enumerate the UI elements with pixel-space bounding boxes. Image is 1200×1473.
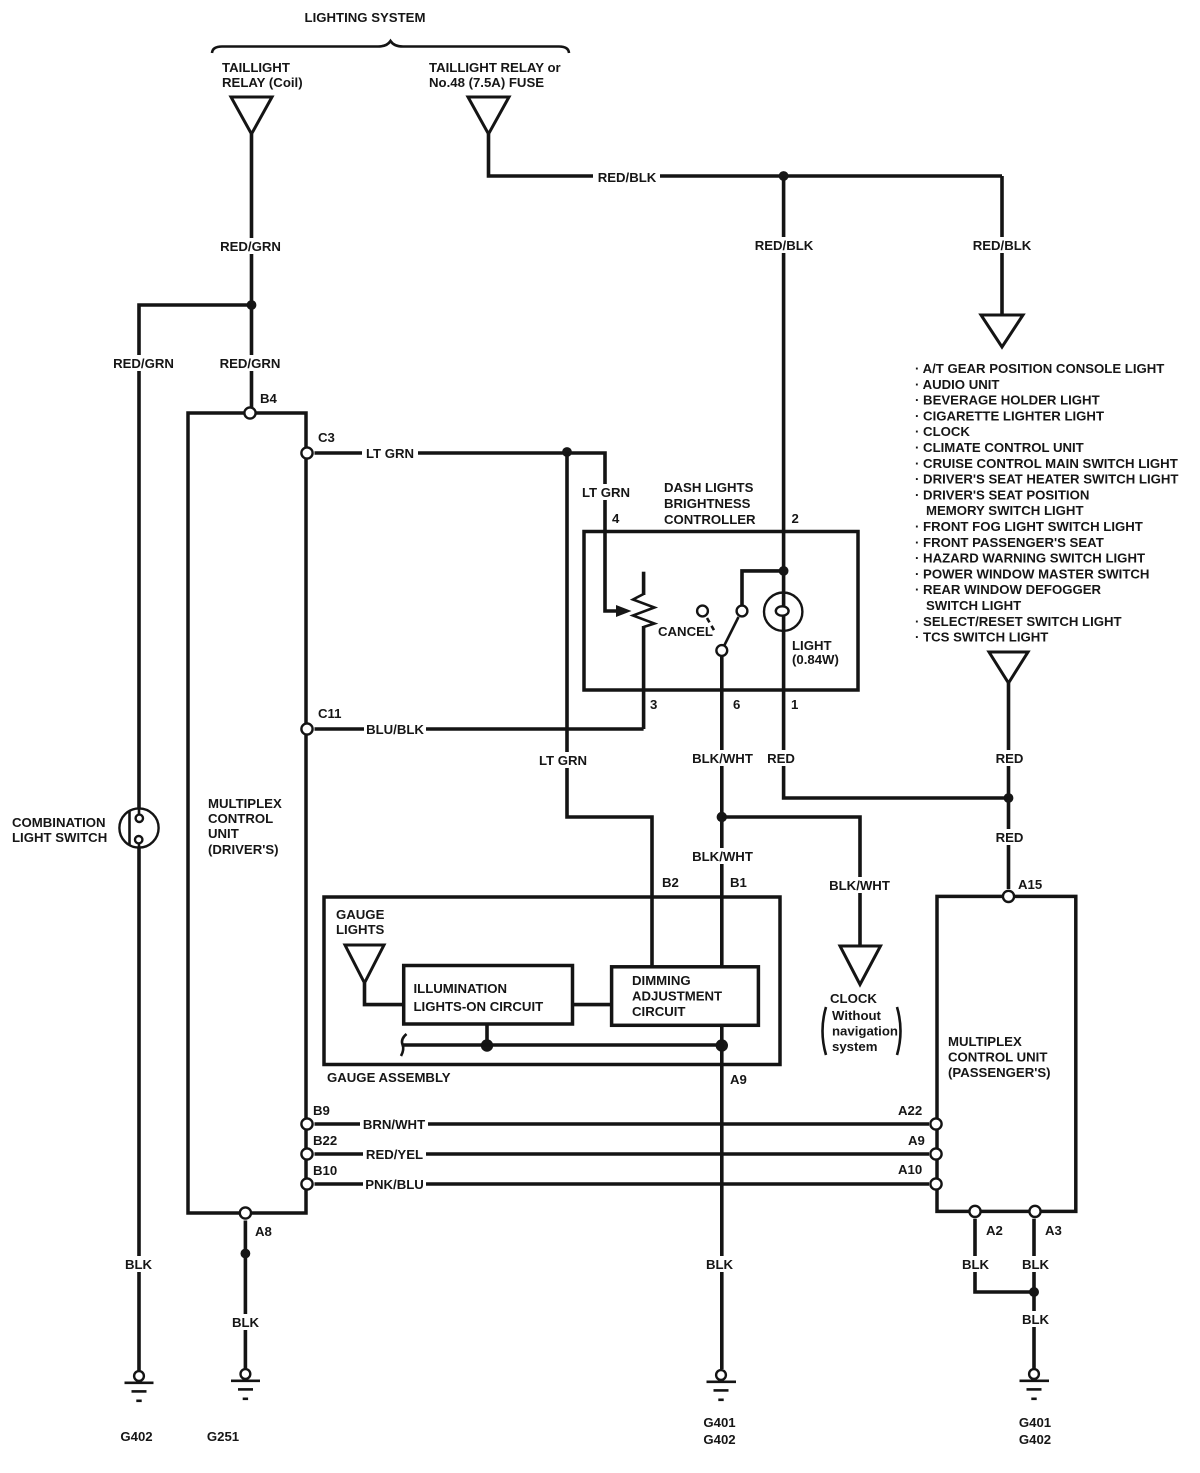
pin label A9 (gauge out) (730, 1072, 747, 1087)
svg-text:6: 6 (733, 697, 740, 712)
connector C11 (301, 723, 312, 734)
wire between illumination and dimming circuits (573, 1003, 612, 1007)
connector B10 (301, 1178, 312, 1189)
label BLU/BLK (364, 721, 426, 737)
ground bus wire (402, 1043, 722, 1047)
switch lever (724, 617, 739, 646)
svg-text:BLK/WHT: BLK/WHT (692, 849, 753, 864)
junction RED/BLK tee (779, 171, 789, 181)
svg-text:B10: B10 (313, 1163, 337, 1178)
junction LT GRN tee (562, 447, 572, 457)
svg-text:RED/GRN: RED/GRN (220, 356, 281, 371)
svg-text:BLK/WHT: BLK/WHT (829, 878, 890, 893)
svg-text:ILLUMINATION: ILLUMINATION (414, 981, 508, 996)
svg-text:C3: C3 (318, 430, 335, 445)
connector B22 (301, 1148, 312, 1159)
svg-text:BLK: BLK (962, 1257, 990, 1272)
svg-text:G401: G401 (703, 1415, 735, 1430)
svg-text:LIGHT: LIGHT (792, 638, 832, 653)
connector A2 (969, 1206, 980, 1217)
svg-text:BLK: BLK (232, 1315, 260, 1330)
svg-text:B9: B9 (313, 1103, 330, 1118)
label TAILLIGHT RELAY (Coil) (222, 60, 303, 90)
svg-text:RED: RED (996, 830, 1024, 845)
svg-text:GAUGE ASSEMBLY: GAUGE ASSEMBLY (327, 1070, 451, 1085)
wire RED/BLK from fuse triangle right (489, 134, 1003, 176)
svg-text:· AUDIO UNIT: · AUDIO UNIT (915, 377, 1000, 392)
dimming adjustment circuit box (612, 967, 759, 1026)
svg-text:BLK: BLK (1022, 1312, 1050, 1327)
ground G251 (231, 1369, 260, 1399)
label BRN/WHT (360, 1116, 428, 1132)
svg-text:BLK: BLK (706, 1257, 734, 1272)
wire switch to pin2 node (742, 571, 784, 605)
svg-text:BRIGHTNESS: BRIGHTNESS (664, 496, 751, 511)
label GAUGE LIGHTS (336, 907, 385, 937)
pin label 4 (612, 511, 620, 526)
svg-text:LIGHT SWITCH: LIGHT SWITCH (12, 830, 107, 845)
svg-text:BLK: BLK (125, 1257, 153, 1272)
svg-text:CLOCK: CLOCK (830, 991, 877, 1006)
wire BLK from A8 to G251 (244, 1221, 248, 1370)
cancel contact (697, 606, 708, 617)
label A8 (255, 1224, 272, 1239)
svg-text:4: 4 (612, 511, 620, 526)
label BLK (A8 wire) (229, 1314, 262, 1330)
ground G402 (left) (125, 1371, 154, 1401)
svg-text:RED: RED (996, 751, 1024, 766)
switch fixed contact (737, 606, 748, 617)
label B9 (313, 1103, 330, 1118)
junction dimming bus (716, 1039, 728, 1051)
wire BLK/WHT branch to clock (722, 817, 860, 946)
junction A2/A3 ground tee (1029, 1287, 1039, 1297)
svg-text:Without: Without (832, 1008, 882, 1023)
label RED/BLK (to circuit list) (969, 237, 1035, 253)
svg-text:DASH LIGHTS: DASH LIGHTS (664, 480, 754, 495)
label RED/GRN (to B4) (218, 355, 282, 371)
label B22 (313, 1133, 337, 1148)
wire illumination circuit to ground bus (485, 1024, 489, 1045)
svg-text:· HAZARD WARNING SWITCH LIGHT: · HAZARD WARNING SWITCH LIGHT (915, 551, 1145, 566)
label DIMMING ADJUSTMENT CIRCUIT (632, 973, 722, 1019)
svg-text:(DRIVER'S): (DRIVER'S) (208, 842, 279, 857)
bus continuation mark (401, 1034, 407, 1056)
label BLK (A9 wire) (703, 1256, 736, 1272)
label ILLUMINATION LIGHTS-ON CIRCUIT (414, 981, 544, 1014)
ground G401 G402 (right) (1020, 1369, 1050, 1399)
label MULTIPLEX CONTROL UNIT (DRIVER'S) (208, 796, 282, 857)
svg-text:PNK/BLU: PNK/BLU (365, 1177, 424, 1192)
label RED/BLK (horizontal feed) (593, 168, 660, 185)
pin label B1 (730, 875, 747, 890)
svg-text:G402: G402 (1019, 1432, 1051, 1447)
svg-text:· POWER WINDOW MASTER SWITCH: · POWER WINDOW MASTER SWITCH (915, 566, 1149, 581)
label DASH LIGHTS BRIGHTNESS CONTROLLER (664, 480, 756, 527)
ground G401 G402 (center) (707, 1370, 737, 1400)
svg-text:LIGHTS: LIGHTS (336, 922, 385, 937)
svg-text:CONTROL UNIT: CONTROL UNIT (948, 1050, 1047, 1065)
svg-text:BLU/BLK: BLU/BLK (366, 722, 424, 737)
label C3 (318, 430, 335, 445)
junction BLK/WHT tee (717, 812, 727, 822)
potentiometer (dimmer resistor) (633, 572, 654, 729)
svg-text:RED/GRN: RED/GRN (220, 239, 281, 254)
svg-text:(0.84W): (0.84W) (792, 652, 839, 667)
connector C3 (301, 447, 312, 458)
label CANCEL (658, 624, 713, 639)
svg-text:· TCS SWITCH LIGHT: · TCS SWITCH LIGHT (915, 630, 1048, 645)
svg-text:RED/BLK: RED/BLK (973, 238, 1032, 253)
svg-text:· BEVERAGE HOLDER LIGHT: · BEVERAGE HOLDER LIGHT (915, 393, 1100, 408)
svg-text:RED: RED (767, 751, 795, 766)
label RED (pin 1) (765, 750, 797, 766)
connector A10 (930, 1178, 941, 1189)
label G401 G402 (center) (703, 1415, 735, 1447)
label A10 (898, 1162, 922, 1177)
connector A15 (1003, 891, 1014, 902)
label C11 (318, 706, 341, 721)
svg-text:B4: B4 (260, 391, 278, 406)
svg-text:MULTIPLEX: MULTIPLEX (948, 1034, 1022, 1049)
connector B4 (244, 407, 255, 418)
wire LT GRN from C3 to controller pin 4 (315, 453, 619, 611)
label RED (above junction) (994, 750, 1025, 766)
label A2 (986, 1223, 1003, 1238)
svg-text:A3: A3 (1045, 1223, 1062, 1238)
svg-text:LIGHTING SYSTEM: LIGHTING SYSTEM (305, 10, 426, 25)
label BLK/WHT (above junction) (690, 750, 755, 766)
svg-text:MULTIPLEX: MULTIPLEX (208, 796, 282, 811)
label LT GRN (pin 4) (578, 484, 634, 500)
dashed cancel link (707, 618, 715, 632)
svg-text:· FRONT FOG LIGHT SWITCH LIGHT: · FRONT FOG LIGHT SWITCH LIGHT (915, 519, 1143, 534)
svg-text:BLK/WHT: BLK/WHT (692, 751, 753, 766)
label BLK/WHT (below junction) (690, 848, 755, 864)
svg-text:GAUGE: GAUGE (336, 907, 385, 922)
wire RED down to A15 (1007, 683, 1011, 889)
svg-text:No.48 (7.5A) FUSE: No.48 (7.5A) FUSE (429, 75, 544, 90)
svg-text:LT GRN: LT GRN (366, 446, 414, 461)
svg-text:RED/GRN: RED/GRN (113, 356, 174, 371)
junction illumination bus (481, 1039, 493, 1051)
svg-text:A9: A9 (908, 1133, 925, 1148)
label LT GRN (vertical) (535, 752, 591, 768)
label A22 (898, 1103, 922, 1118)
label BLK (below junction) (1019, 1311, 1052, 1327)
pin label 2 (792, 511, 799, 526)
connector A8 (240, 1207, 251, 1218)
svg-text:G401: G401 (1019, 1415, 1051, 1430)
circuit list (915, 361, 1178, 645)
connector triangle: taillight relay / fuse (468, 97, 509, 134)
wire BLK from A2 (975, 1219, 1034, 1292)
svg-text:BLK: BLK (1022, 1257, 1050, 1272)
label RED (below junction) (994, 829, 1025, 845)
svg-text:system: system (832, 1039, 877, 1054)
connector triangle: to listed circuits (981, 315, 1023, 347)
svg-text:· CLOCK: · CLOCK (915, 424, 970, 439)
svg-text:UNIT: UNIT (208, 826, 239, 841)
label BLK (left ground wire) (122, 1256, 155, 1272)
wire A9 through gauge box down (720, 1025, 724, 1369)
junction splice on A8 ground wire (241, 1249, 251, 1259)
svg-text:· CLIMATE CONTROL UNIT: · CLIMATE CONTROL UNIT (915, 440, 1084, 455)
svg-text:G402: G402 (703, 1432, 735, 1447)
svg-text:TAILLIGHT RELAY or: TAILLIGHT RELAY or (429, 60, 561, 75)
label A15 (1018, 877, 1042, 892)
svg-text:· FRONT PASSENGER'S SEAT: · FRONT PASSENGER'S SEAT (915, 535, 1104, 550)
label PNK/BLU (363, 1176, 426, 1192)
label BLK/WHT (clock branch) (827, 877, 892, 893)
wire RED/BLK down to controller pin 2 (782, 176, 786, 592)
lamp LIGHT 0.84W (764, 593, 802, 632)
svg-text:B2: B2 (662, 875, 679, 890)
svg-text:· CIGARETTE LIGHTER LIGHT: · CIGARETTE LIGHTER LIGHT (915, 408, 1104, 423)
header LIGHTING SYSTEM (305, 10, 426, 25)
label GAUGE ASSEMBLY (327, 1070, 451, 1085)
wire BLU/BLK from C11 to controller pin 3 (315, 727, 644, 731)
svg-text:C11: C11 (318, 706, 341, 721)
label COMBINATION LIGHT SWITCH (12, 815, 107, 845)
label B10 (313, 1163, 337, 1178)
label LIGHT (0.84W) (792, 638, 839, 667)
combination light switch (119, 807, 158, 849)
pin label B2 (662, 875, 679, 890)
svg-text:B1: B1 (730, 875, 747, 890)
label RED/GRN (upper middle) (219, 238, 282, 254)
wire RED/BLK down to circuits arrow (1000, 176, 1004, 315)
label RED/GRN (left branch) (111, 355, 175, 371)
svg-text:· A/T GEAR POSITION CONSOLE LI: · A/T GEAR POSITION CONSOLE LIGHT (915, 361, 1164, 376)
wire PNK/BLU B10 to A10 (315, 1182, 930, 1186)
illumination lights-on circuit box (404, 966, 573, 1025)
connector triangle: taillight relay coil (231, 97, 272, 134)
svg-text:CONTROLLER: CONTROLLER (664, 512, 756, 527)
label RED/BLK (to controller) (751, 237, 817, 253)
svg-text:A2: A2 (986, 1223, 1003, 1238)
wire RED pin1 down and right to junction (784, 631, 1009, 798)
label CLOCK (Without navigation system) (823, 991, 901, 1055)
pin label 1 (791, 697, 798, 712)
svg-text:MEMORY SWITCH LIGHT: MEMORY SWITCH LIGHT (926, 503, 1084, 518)
pin label 6 (733, 697, 740, 712)
svg-text:B22: B22 (313, 1133, 337, 1148)
svg-text:BRN/WHT: BRN/WHT (363, 1117, 425, 1132)
pin label 3 (650, 697, 657, 712)
svg-text:CANCEL: CANCEL (658, 624, 713, 639)
switch moving contact (716, 645, 727, 656)
svg-text:TAILLIGHT: TAILLIGHT (222, 60, 290, 75)
connector B9 (301, 1118, 312, 1129)
label LT GRN (at C3) (362, 445, 418, 461)
wire BRN/WHT B9 to A22 (315, 1122, 930, 1126)
label A3 (1045, 1223, 1062, 1238)
svg-text:3: 3 (650, 697, 657, 712)
svg-text:· DRIVER'S SEAT HEATER SWITCH: · DRIVER'S SEAT HEATER SWITCH LIGHT (915, 472, 1178, 487)
svg-text:A15: A15 (1018, 877, 1042, 892)
connector triangle: gauge lights (345, 945, 384, 983)
gauge assembly box (324, 897, 780, 1065)
wire BLK from A3 to ground (1032, 1219, 1036, 1369)
junction pin2 node (779, 566, 789, 576)
label A9 (908, 1133, 925, 1148)
svg-text:LT GRN: LT GRN (539, 753, 587, 768)
connector A22 (930, 1118, 941, 1129)
svg-text:LT GRN: LT GRN (582, 485, 630, 500)
connector triangle: from lighting circuits (RED) (989, 652, 1028, 683)
svg-text:1: 1 (791, 697, 798, 712)
label G251 (207, 1429, 239, 1444)
brace over lighting system (212, 41, 569, 53)
multiplex control unit passenger's box (937, 896, 1076, 1211)
svg-text:A10: A10 (898, 1162, 922, 1177)
svg-text:RELAY (Coil): RELAY (Coil) (222, 75, 303, 90)
svg-text:· SELECT/RESET SWITCH LIGHT: · SELECT/RESET SWITCH LIGHT (915, 614, 1122, 629)
wire BLK/WHT pin6 down (720, 656, 724, 967)
wire LT GRN down to B2 (567, 452, 652, 967)
label B4 (260, 391, 278, 406)
svg-text:· CRUISE CONTROL MAIN SWITCH L: · CRUISE CONTROL MAIN SWITCH LIGHT (915, 456, 1178, 471)
wiper arrow pin 4 (616, 605, 632, 617)
svg-text:· REAR WINDOW DEFOGGER: · REAR WINDOW DEFOGGER (915, 582, 1102, 597)
multiplex control unit driver's box (188, 413, 306, 1213)
label G402 (120, 1429, 152, 1444)
svg-text:A22: A22 (898, 1103, 922, 1118)
junction RED/GRN tee (247, 300, 257, 310)
svg-text:A9: A9 (730, 1072, 747, 1087)
svg-text:COMBINATION: COMBINATION (12, 815, 106, 830)
svg-text:2: 2 (792, 511, 799, 526)
junction RED tee (1004, 793, 1014, 803)
wire gauge lights to illumination circuit (365, 983, 404, 1005)
wire RED/YEL B22 to A9 (315, 1152, 930, 1156)
svg-text:navigation: navigation (832, 1024, 898, 1039)
svg-text:G402: G402 (120, 1429, 152, 1444)
svg-text:CIRCUIT: CIRCUIT (632, 1004, 685, 1019)
svg-text:RED/YEL: RED/YEL (366, 1147, 423, 1162)
label MULTIPLEX CONTROL UNIT (PASSENGER'S) (948, 1034, 1051, 1080)
svg-text:· DRIVER'S SEAT POSITION: · DRIVER'S SEAT POSITION (915, 487, 1089, 502)
wire RED/GRN from taillight relay down (250, 134, 254, 413)
svg-text:RED/BLK: RED/BLK (598, 170, 657, 185)
label BLK (A2) (959, 1256, 992, 1272)
svg-text:G251: G251 (207, 1429, 239, 1444)
svg-text:LIGHTS-ON CIRCUIT: LIGHTS-ON CIRCUIT (414, 999, 544, 1014)
label BLK (A3) (1019, 1256, 1052, 1272)
svg-text:A8: A8 (255, 1224, 272, 1239)
connector triangle: clock (840, 946, 881, 985)
label G401 G402 (right) (1019, 1415, 1051, 1447)
svg-text:ADJUSTMENT: ADJUSTMENT (632, 989, 722, 1004)
svg-text:CONTROL: CONTROL (208, 811, 273, 826)
svg-text:RED/BLK: RED/BLK (755, 238, 814, 253)
wire RED/GRN left branch (139, 305, 252, 1371)
svg-text:(PASSENGER'S): (PASSENGER'S) (948, 1065, 1051, 1080)
label TAILLIGHT RELAY or No.48 FUSE (429, 60, 561, 90)
label RED/YEL (363, 1146, 426, 1162)
connector A3 (1029, 1206, 1040, 1217)
connector A9 (930, 1148, 941, 1159)
svg-text:DIMMING: DIMMING (632, 973, 691, 988)
svg-text:SWITCH LIGHT: SWITCH LIGHT (926, 598, 1021, 613)
dash lights brightness controller box (584, 532, 858, 691)
